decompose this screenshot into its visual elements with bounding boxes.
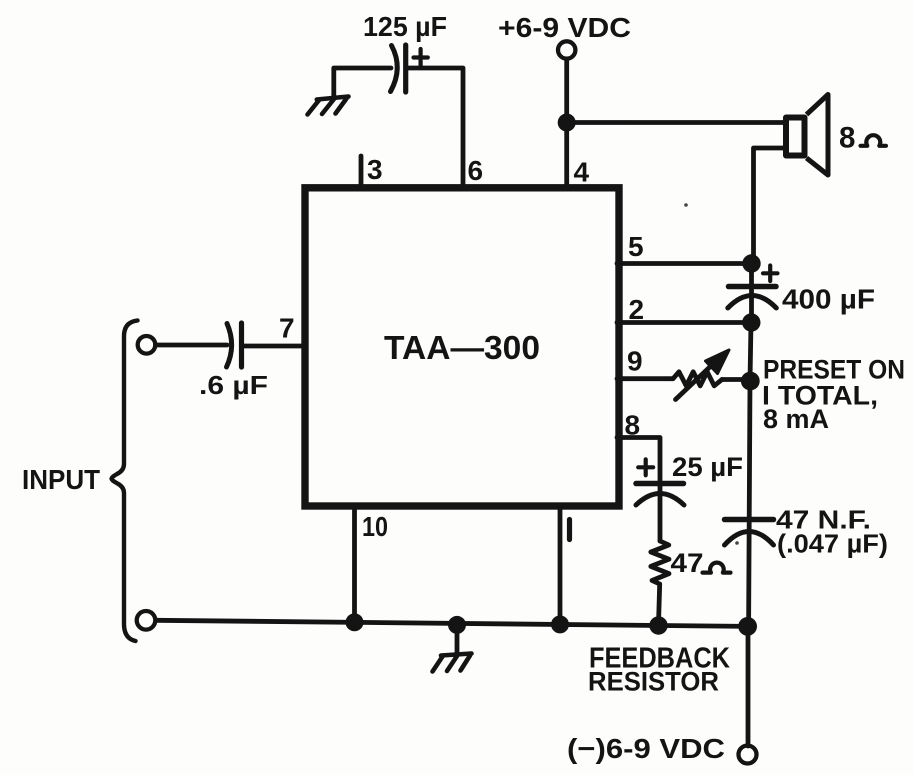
svg-text:+6-9 VDC: +6-9 VDC — [498, 12, 631, 43]
svg-text:8 mA: 8 mA — [763, 404, 829, 434]
svg-text:(.047 µF): (.047 µF) — [777, 531, 888, 559]
svg-text:25 µF: 25 µF — [672, 452, 743, 482]
svg-text:47: 47 — [671, 548, 704, 578]
svg-text:6: 6 — [468, 155, 484, 186]
svg-text:5: 5 — [628, 231, 644, 262]
svg-text:400 µF: 400 µF — [782, 284, 875, 315]
svg-text:125 µF: 125 µF — [363, 11, 447, 42]
svg-text:TAA—300: TAA—300 — [384, 329, 540, 366]
svg-text:3: 3 — [367, 154, 383, 185]
svg-text:8: 8 — [625, 410, 641, 441]
svg-text:4: 4 — [574, 157, 590, 188]
svg-text:RESISTOR: RESISTOR — [588, 667, 719, 697]
svg-text:10: 10 — [362, 511, 388, 542]
svg-text:2: 2 — [629, 294, 645, 325]
svg-text:7: 7 — [279, 313, 295, 344]
svg-text:INPUT: INPUT — [22, 464, 100, 495]
svg-text:8: 8 — [839, 122, 855, 155]
svg-text:.6 µF: .6 µF — [199, 370, 268, 400]
svg-text:9: 9 — [627, 346, 643, 377]
svg-text:(−)6-9 VDC: (−)6-9 VDC — [567, 733, 725, 764]
